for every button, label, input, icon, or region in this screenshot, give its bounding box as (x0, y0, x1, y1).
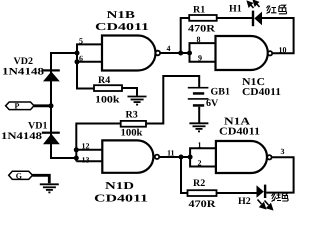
LED H2 emission arrows (258, 200, 273, 210)
wire battery rail: R3 right up over to battery top (146, 76, 199, 124)
wire pin 6 stub (77, 61, 102, 63)
svg-text:100k: 100k (95, 95, 120, 106)
ground (G flag) (40, 184, 59, 192)
svg-text:470R: 470R (189, 199, 217, 210)
node junction dot pin6 (75, 59, 80, 64)
svg-text:3: 3 (281, 147, 285, 156)
LED H1 (red) (252, 11, 262, 27)
svg-text:8: 8 (197, 35, 201, 44)
resistor R2 (188, 190, 217, 196)
node junction dot left rail / bus link (75, 51, 80, 56)
node junction dot P rail (49, 103, 54, 108)
svg-text:13: 13 (82, 156, 90, 165)
label 绿色 (green) hand-drawn glyphs (272, 193, 289, 202)
svg-text:10: 10 (279, 46, 287, 55)
ground (battery) (189, 123, 208, 131)
svg-text:CD4011: CD4011 (219, 127, 260, 138)
wire pin 13 stub (76, 160, 102, 162)
node junction dot N1A bus (188, 155, 193, 160)
svg-text:CD4011: CD4011 (95, 22, 149, 33)
wire N1D output to N1A bus (159, 156, 190, 158)
gate N1A (CD4011 NAND) (216, 141, 267, 173)
node junction dot left rail join (74, 156, 79, 161)
svg-text:4: 4 (167, 44, 171, 53)
svg-text:5: 5 (79, 37, 83, 46)
resistor R4 (94, 85, 122, 91)
LED H2 (green) (257, 185, 267, 198)
svg-text:R4: R4 (98, 75, 110, 86)
gate N1A output bubble (267, 155, 271, 159)
svg-text:12: 12 (82, 142, 90, 151)
wire R1 to LED H1 (217, 17, 252, 19)
wire N1A output down to LED H2 (266, 157, 293, 192)
svg-text:VD2: VD2 (14, 56, 33, 67)
wire riser pin11 to R2 (181, 157, 188, 193)
svg-text:1N4148: 1N4148 (2, 67, 44, 78)
svg-text:CD4011: CD4011 (242, 87, 281, 98)
op... gate N1B (CD4011 NAND) (102, 36, 156, 71)
node junction dot N1C bus (187, 51, 192, 56)
label 红色 (red) hand-drawn glyphs (267, 5, 287, 14)
wire R4 to ground (122, 88, 137, 96)
svg-text:GB1: GB1 (211, 87, 230, 98)
svg-text:R3: R3 (126, 110, 138, 121)
connector flag G (9, 171, 50, 183)
connector flag P (6, 102, 51, 111)
svg-text:R1: R1 (193, 4, 205, 15)
svg-text:H1: H1 (229, 4, 242, 15)
wire left rail top corner to N1B input bus (51, 53, 77, 158)
wire N1B input bus with pin 5 and pin 6 (77, 44, 102, 88)
svg-text:H2: H2 (238, 196, 251, 207)
svg-text:1N4148: 1N4148 (1, 131, 42, 142)
diode VD2 (42, 69, 60, 81)
svg-text:VD1: VD1 (28, 121, 47, 132)
gate N1C (CD4011 NAND) (216, 36, 268, 70)
svg-text:6: 6 (79, 54, 83, 63)
svg-text:470R: 470R (188, 24, 216, 35)
svg-text:6V: 6V (206, 98, 219, 109)
wire R3 left to N1D input bus (76, 124, 120, 162)
svg-text:R2: R2 (193, 178, 205, 189)
svg-text:P: P (15, 102, 20, 111)
wire N1C input bus pins 8 and 9 (190, 43, 216, 62)
svg-text:CD4011: CD4011 (94, 194, 148, 205)
svg-text:N1D: N1D (105, 181, 135, 192)
gate N1C output bubble (268, 51, 272, 55)
svg-text:G: G (16, 171, 22, 180)
svg-text:100k: 100k (121, 128, 143, 139)
resistor R3 (121, 121, 146, 127)
wire N1B output to N1C input bus (160, 52, 189, 54)
gate N1B output bubble (156, 51, 161, 56)
node junction dot pin12 (74, 147, 79, 152)
svg-text:2: 2 (198, 158, 202, 167)
wire LED H1 to N1C output (262, 18, 294, 53)
svg-text:11: 11 (167, 148, 175, 157)
ground (R4) (128, 97, 147, 105)
wire riser to R1 (181, 18, 190, 53)
diode VD1 (42, 132, 60, 145)
svg-text:N1B: N1B (107, 10, 136, 21)
svg-text:1: 1 (198, 140, 202, 149)
wire R2 to LED H2 (217, 192, 257, 194)
wire pin 12 stub (76, 149, 102, 151)
gate N1D (CD4011 NAND) (102, 140, 153, 172)
node junction dot riser R1 (178, 51, 183, 56)
gate N1D output bubble (155, 155, 159, 159)
svg-text:9: 9 (198, 54, 202, 63)
wire battery to ground (198, 107, 200, 123)
wire N1A input bus pins 1 and 2 (190, 148, 216, 166)
node junction dot riser R2 (179, 155, 184, 160)
battery GB1 (188, 87, 209, 107)
LED H1 emission arrows (248, 1, 260, 8)
resistor R1 (189, 15, 217, 21)
